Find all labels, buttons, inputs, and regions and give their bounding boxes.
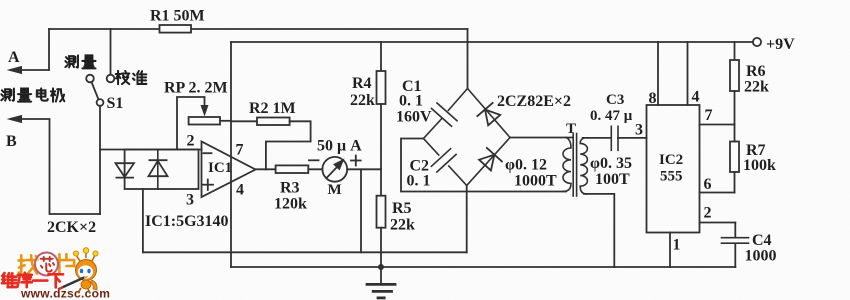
potentiometer RP body xyxy=(189,117,220,125)
capacitor C2 plates xyxy=(431,149,456,172)
wire B branch xyxy=(20,119,100,214)
wire pin 2 xyxy=(700,222,736,224)
capacitor C1 plates xyxy=(432,103,458,126)
wire bridge left to primary return xyxy=(401,139,566,192)
wire mid riser (op-amp supply column) xyxy=(230,42,232,267)
switch S1 calibrate contact xyxy=(107,75,115,83)
potentiometer RP bracket wire xyxy=(177,97,205,150)
wire middle branch of diode box xyxy=(157,150,159,190)
wire bridge bottom drop to feedback bus xyxy=(466,186,468,253)
terminal A arrow xyxy=(7,66,50,74)
wire A riser xyxy=(48,29,50,70)
wire RP right to mid riser xyxy=(220,120,231,122)
meter needle xyxy=(327,159,345,179)
wire pin 6 xyxy=(700,192,735,194)
wire pin 8 xyxy=(657,42,659,105)
capacitor C4 xyxy=(722,223,749,268)
wire diode box to feedback bus xyxy=(142,189,144,252)
label meter minus xyxy=(309,159,319,161)
bridge arm C2 upper segment xyxy=(424,139,439,156)
diode D4 (2CZ82E) xyxy=(479,147,503,170)
watermark 芯 in magnifier xyxy=(41,257,54,272)
diode D1 (left 2CK) xyxy=(116,163,135,177)
wire meter to divider node xyxy=(347,168,381,170)
bridge arm diode D4 xyxy=(467,138,510,186)
wire secondary to C3 xyxy=(583,137,611,139)
ground xyxy=(367,267,395,298)
wire inverting input node (pin 2 net) xyxy=(100,149,202,151)
watermark mascot xyxy=(58,248,98,294)
diode D3 (2CZ82E) xyxy=(477,102,501,125)
switch S1 lever xyxy=(92,82,99,99)
potentiometer RP wiper arrow xyxy=(201,105,209,117)
wire pin 7 xyxy=(700,124,735,126)
wire secondary return xyxy=(584,194,614,267)
diode D2 (right 2CK) xyxy=(149,160,168,176)
wire calibrate contact riser xyxy=(110,29,112,74)
label meter plus xyxy=(351,156,361,166)
bridge arm C1 upper segment xyxy=(448,89,467,111)
resistor R2 xyxy=(257,118,290,126)
label 测量电极 (measuring electrodes) xyxy=(1,88,64,101)
IC IC2 555 body xyxy=(647,105,700,233)
wire op-amp output xyxy=(256,168,276,170)
transformer T secondary winding xyxy=(580,138,587,194)
label plus input xyxy=(203,180,214,191)
watermark logo 找芯片 xyxy=(19,254,75,273)
wire riser top rail to bridge top xyxy=(467,29,469,89)
supply rail +9V xyxy=(231,41,753,43)
wire R3 to meter xyxy=(308,168,322,170)
wire meter shunt drop to feedback bus xyxy=(360,169,362,252)
label 测量 (measure) xyxy=(65,55,95,68)
wire bridge right to transformer primary xyxy=(510,137,572,139)
switch S1 measure contact xyxy=(86,75,94,83)
resistor R5 xyxy=(377,169,386,267)
wire R2 left xyxy=(231,120,257,122)
watermark 维库一下 xyxy=(2,273,63,288)
terminal B arrow xyxy=(7,115,23,123)
resistor R7 xyxy=(730,125,739,193)
label minus input xyxy=(204,152,212,154)
wire C3 to IC2 pin 3 xyxy=(618,137,647,139)
resistor R6 xyxy=(730,42,739,125)
watermark magnifier ring xyxy=(35,253,58,276)
resistor R4 xyxy=(377,42,386,169)
wire pin 4 xyxy=(687,42,689,105)
bridge arm C2 lower segment xyxy=(449,166,467,186)
wire top rail (R1 row) xyxy=(49,28,468,30)
diode box 2CK x2 outline xyxy=(125,150,199,190)
wire R2 feedback loop to output xyxy=(266,121,311,169)
wire pin 1 xyxy=(669,233,671,268)
capacitor C3 xyxy=(611,126,618,150)
wire feedback bus (bottom horizontal) xyxy=(143,251,467,253)
meter M body xyxy=(322,157,347,182)
bridge arm C1 lower segment xyxy=(424,119,442,139)
bridge arm diode D3 xyxy=(468,89,511,138)
op-amp IC1 xyxy=(202,142,256,198)
transformer T core xyxy=(573,134,576,197)
switch S1 pole xyxy=(97,99,104,106)
transformer T primary winding xyxy=(563,138,571,192)
resistor R3 xyxy=(276,165,309,173)
wire S1 pole down xyxy=(99,106,101,214)
resistor R1 xyxy=(160,25,192,33)
wire ground rail xyxy=(231,266,735,268)
label 校准 (calibrate) xyxy=(116,71,147,84)
junction dot R5/ground xyxy=(378,264,384,270)
terminal +9V xyxy=(753,38,761,46)
